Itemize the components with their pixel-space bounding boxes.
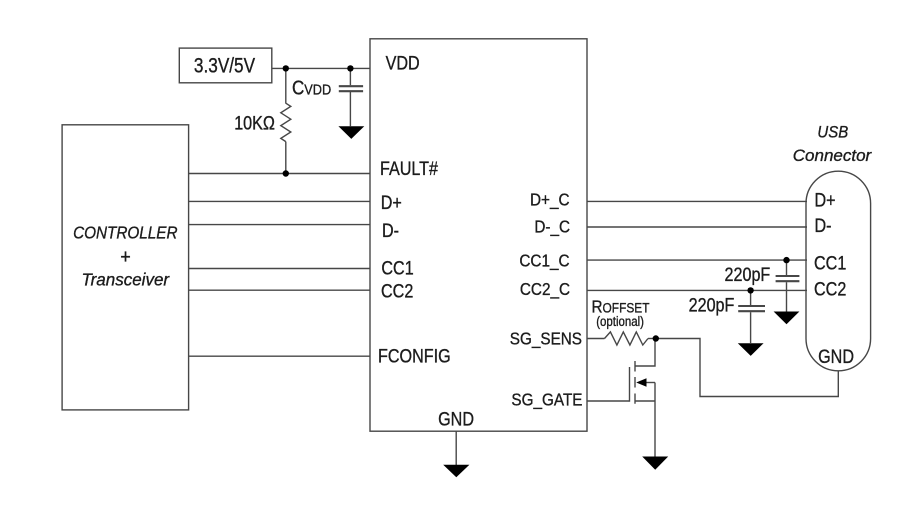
label USB — [817, 124, 848, 142]
wire CVDD cap to ground — [349, 92, 351, 126]
svg-text:USB: USB — [817, 124, 848, 142]
wire VDD supply to IC — [272, 67, 370, 69]
svg-text:CC1: CC1 — [381, 257, 413, 279]
label Connector — [793, 146, 873, 165]
transistor Q1 body line — [641, 382, 655, 384]
wire junction down to FET drain — [635, 339, 655, 367]
supply box 3.3V/5V — [179, 48, 271, 83]
wire ROFFSET to junction — [648, 338, 656, 340]
transistor Q1 source line — [635, 400, 655, 402]
wire cap C1 top from CC1 node — [786, 260, 788, 275]
junction node CC2/C2 — [747, 287, 753, 293]
svg-text:FCONFIG: FCONFIG — [378, 345, 451, 367]
label Transceiver — [82, 269, 171, 290]
wire junction to GND return — [656, 339, 839, 397]
svg-text:CONTROLLER: CONTROLLER — [73, 222, 177, 242]
pin label D+ — [381, 192, 402, 214]
wire D+_C — [587, 200, 807, 202]
wire CC1_C — [587, 259, 807, 261]
wire cap C1 to ground — [786, 282, 788, 311]
wire SG_SENS stub — [587, 338, 605, 340]
transistor Q1 gate bar — [629, 367, 631, 402]
svg-text:D-: D- — [815, 215, 832, 237]
pin label GND (connector) — [818, 346, 854, 368]
label 3.3V/5V — [194, 54, 255, 78]
svg-text:220pF: 220pF — [725, 264, 771, 286]
label 10KΩ — [234, 112, 275, 134]
pin label D- — [382, 220, 399, 242]
resistor ROFFSET zigzag — [605, 332, 649, 345]
pin label CC2 (connector) — [814, 278, 846, 300]
pin label D+_C — [530, 189, 570, 209]
ground under FET source — [642, 457, 668, 470]
svg-text:+: + — [120, 247, 131, 269]
label CVDD — [292, 76, 331, 99]
pin label D- (connector) — [815, 215, 832, 237]
label 220pF (C2) — [689, 294, 735, 316]
wire 10K resistor bottom — [285, 142, 287, 174]
capacitor CVDD plates — [339, 85, 363, 87]
pin label GND (IC) — [438, 408, 474, 430]
label 220pF (C1) — [725, 264, 771, 286]
wire CC2_C — [587, 289, 807, 291]
pin label SG_SENS — [510, 329, 582, 349]
svg-text:Transceiver: Transceiver — [82, 269, 171, 290]
IC U1 box — [370, 39, 587, 431]
pin label CC1 — [381, 257, 413, 279]
pin label SG_GATE — [511, 389, 582, 409]
wire D- — [189, 224, 370, 226]
label ROFFSET — [592, 296, 650, 316]
pin label FAULT# — [380, 158, 438, 180]
wire FAULT# — [189, 173, 370, 175]
svg-text:D+: D+ — [381, 192, 402, 214]
transistor Q1 source to ground — [654, 383, 656, 457]
capacitor C1 220pF plates — [776, 275, 800, 277]
wire CC1 — [189, 268, 370, 270]
ground under C2 — [738, 343, 764, 356]
junction node VDD/CVDD — [347, 65, 353, 71]
wire FCONFIG — [189, 355, 370, 357]
ground under IC GND — [443, 465, 469, 478]
wire D+ — [189, 200, 370, 202]
resistor 10K zigzag — [281, 103, 291, 141]
label + — [120, 247, 131, 269]
wire CVDD cap top — [349, 68, 351, 85]
ground under CVDD — [338, 126, 364, 139]
svg-text:VDD: VDD — [386, 52, 420, 74]
label (optional) — [596, 314, 644, 329]
pin label D+ (connector) — [815, 189, 836, 211]
pin label VDD — [386, 52, 420, 74]
transistor Q1 channel segments — [634, 361, 636, 404]
svg-text:(optional): (optional) — [596, 314, 644, 329]
junction node SG_SENS/drain — [653, 335, 659, 341]
junction node CC1/C1 — [783, 257, 789, 263]
pin label CC2_C — [520, 279, 570, 299]
wire CC2 — [189, 289, 370, 291]
svg-text:GND: GND — [438, 408, 474, 430]
pin label CC1_C — [519, 250, 569, 270]
junction node FAULT#/10K — [283, 170, 289, 176]
svg-text:CVDD: CVDD — [292, 76, 331, 99]
svg-text:SG_GATE: SG_GATE — [511, 389, 582, 409]
wire 10K resistor top — [285, 68, 287, 103]
label CONTROLLER — [73, 222, 177, 242]
wire SG_GATE — [587, 400, 630, 402]
wire IC GND — [455, 431, 457, 465]
wire D-_C — [587, 226, 807, 228]
svg-text:FAULT#: FAULT# — [380, 158, 438, 180]
pin label D-_C — [534, 217, 570, 237]
svg-text:D-: D- — [382, 220, 399, 242]
svg-text:CC2: CC2 — [814, 278, 846, 300]
controller box — [62, 125, 189, 410]
svg-text:CC2: CC2 — [381, 280, 413, 302]
pin label CC1 (connector) — [814, 252, 846, 274]
pin label CC2 — [381, 280, 413, 302]
svg-text:SG_SENS: SG_SENS — [510, 329, 582, 349]
svg-text:GND: GND — [818, 346, 854, 368]
svg-text:220pF: 220pF — [689, 294, 735, 316]
svg-text:D+: D+ — [815, 189, 836, 211]
svg-text:D-_C: D-_C — [534, 217, 570, 237]
USB connector body — [806, 171, 871, 371]
svg-text:CC1: CC1 — [814, 252, 846, 274]
ground under C1 — [774, 312, 800, 325]
svg-text:D+_C: D+_C — [530, 189, 570, 209]
svg-text:Connector: Connector — [793, 146, 873, 165]
svg-text:CC1_C: CC1_C — [519, 250, 569, 270]
svg-text:CC2_C: CC2_C — [520, 279, 570, 299]
transistor Q1 arrow — [636, 378, 646, 387]
svg-text:3.3V/5V: 3.3V/5V — [194, 54, 255, 78]
capacitor C2 220pF plates — [738, 305, 765, 307]
pin label FCONFIG — [378, 345, 451, 367]
wire cap C2 to ground — [750, 312, 752, 343]
wire cap C2 top from CC2 node — [750, 290, 752, 305]
svg-text:10KΩ: 10KΩ — [234, 112, 275, 134]
junction node VDD/10K — [283, 65, 289, 71]
